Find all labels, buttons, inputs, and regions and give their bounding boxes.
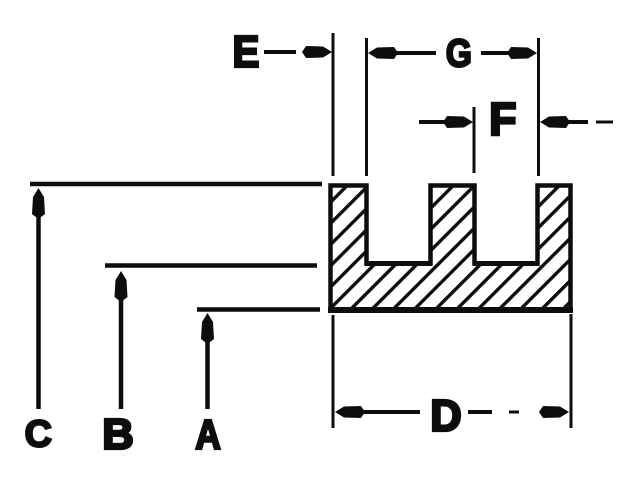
label D [433, 400, 460, 431]
G left extension line (right edge of left finger) [365, 38, 368, 176]
C arrow stem [36, 212, 41, 409]
C arrowhead [32, 188, 45, 219]
slot 2 bottom edge [473, 261, 539, 266]
E leader line [264, 50, 296, 54]
A arrow stem [205, 338, 210, 409]
B level reference line [105, 263, 317, 268]
B arrowhead [115, 271, 128, 302]
label A [196, 420, 220, 449]
label F [492, 103, 515, 135]
A arrowhead [201, 313, 214, 344]
B arrow stem [119, 296, 124, 409]
E arrowhead (points right at left-finger edge) [302, 46, 332, 58]
profile bottom edge (thick) [328, 307, 573, 313]
F right leader line [566, 120, 588, 124]
label G [447, 39, 470, 67]
D left extension line [332, 315, 335, 428]
E extension line (left edge of left finger) [332, 33, 335, 176]
G/F right extension line (left edge of right finger) [537, 38, 540, 176]
F left extension line (right edge of middle finger) [473, 107, 476, 173]
F right leader dash [596, 121, 613, 124]
G dimension line left segment [394, 51, 436, 55]
A level reference line [197, 307, 320, 312]
label E [235, 36, 258, 67]
G dimension line right segment [481, 51, 512, 55]
D right arrowhead (points right) [539, 406, 569, 418]
slot 1 bottom edge [365, 261, 432, 266]
D dimension line right dash [509, 411, 519, 414]
F left arrowhead (points right) [443, 116, 473, 128]
D dimension line left segment [361, 410, 420, 414]
G right arrowhead [507, 47, 537, 59]
label C [26, 420, 51, 447]
F right arrowhead (points left) [540, 116, 570, 128]
comb profile cross-section (hatched) [331, 186, 571, 311]
label B [105, 419, 132, 449]
F left leader line [419, 120, 449, 124]
D left arrowhead (points left) [335, 406, 365, 418]
D dimension line right segment [468, 410, 492, 414]
C level reference line [30, 182, 322, 187]
G left arrowhead [368, 47, 398, 59]
D right extension line [570, 314, 573, 428]
